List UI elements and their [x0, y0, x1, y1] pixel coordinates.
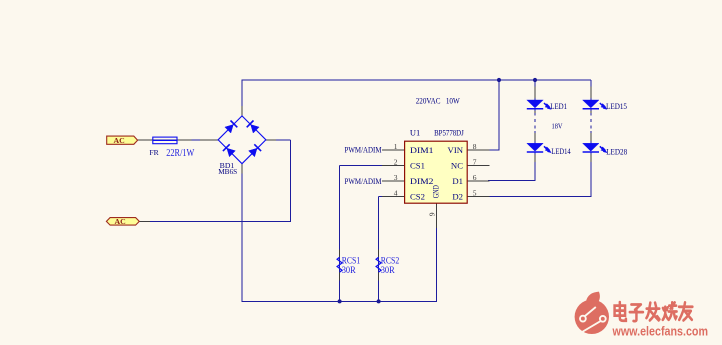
pin stub fuse right	[177, 139, 192, 141]
wire LED15 to LED28 dashed	[590, 113, 592, 132]
svg-text:LED14: LED14	[551, 147, 570, 156]
wire LED column 1 top drop	[534, 80, 536, 100]
junction dot LED col1 / top rail	[533, 78, 537, 82]
wire bridge right to corner	[266, 139, 291, 141]
wire D2 horizontal	[488, 196, 591, 198]
LED1	[527, 100, 551, 109]
pin 8 VIN stub	[467, 149, 489, 151]
pin stub AC2	[139, 220, 150, 222]
bridge BD1 diamond	[218, 116, 266, 164]
svg-text:CS2: CS2	[410, 191, 425, 201]
svg-text:RCS1: RCS1	[342, 255, 361, 265]
svg-text:GND: GND	[432, 185, 441, 198]
svg-text:1: 1	[394, 142, 398, 151]
pin 7 NC stub	[467, 165, 489, 167]
svg-text:18V: 18V	[552, 121, 563, 130]
wire LED1 to LED14 solid top	[534, 109, 536, 113]
bridge diode top-right	[247, 121, 259, 134]
wire VIN riser	[498, 80, 500, 150]
pin stub AC1 to fuse	[137, 139, 153, 141]
svg-text:PWM/ADIM: PWM/ADIM	[345, 145, 382, 155]
wire LED14 cathode drop	[534, 152, 536, 181]
svg-text:AC: AC	[115, 217, 127, 226]
watermark logo circle	[575, 292, 609, 334]
wire AC2 riser	[290, 140, 292, 222]
pin stub LED15 top	[590, 87, 592, 99]
LED15	[583, 100, 607, 109]
wire LED28 cathode drop	[590, 152, 592, 197]
wire LED15 to LED28 solid top	[590, 109, 592, 113]
svg-text:8: 8	[473, 142, 477, 151]
pin stub bridge right	[266, 139, 276, 141]
wire GND pin drop	[435, 225, 437, 302]
svg-text:NC: NC	[451, 160, 463, 170]
fuse FR	[153, 137, 177, 144]
svg-text:6: 6	[473, 173, 477, 182]
junction dot VIN / top rail	[497, 78, 501, 82]
pin 6 D1 stub	[467, 180, 489, 182]
pin stub LED1 top	[534, 87, 536, 99]
svg-text:DIM1: DIM1	[410, 145, 434, 155]
wire D1 horizontal	[488, 180, 536, 182]
pin 9 GND stub	[435, 203, 437, 228]
bridge diode top-left	[225, 121, 237, 134]
svg-text:9: 9	[427, 212, 436, 216]
pin stub LED28 top	[590, 133, 592, 141]
svg-text:30R: 30R	[342, 266, 357, 276]
svg-text:3: 3	[394, 173, 398, 182]
port AC2	[106, 217, 139, 226]
wire bridge top to top rail	[241, 80, 243, 116]
wire top rail	[241, 79, 590, 81]
pin stub RCS2 top	[378, 250, 380, 258]
svg-text:2: 2	[394, 157, 398, 166]
wire bottom rail	[242, 300, 437, 302]
pin stub RCS1 top	[339, 250, 341, 258]
svg-text:DIM2: DIM2	[410, 176, 434, 186]
pin stub LED28 bottom	[590, 155, 592, 163]
pin 3 DIM2 stub	[382, 180, 404, 182]
svg-text:D1: D1	[452, 176, 463, 186]
pin stub bridge bottom	[241, 164, 243, 173]
svg-text:RCS2: RCS2	[381, 255, 400, 265]
svg-text:220VAC 10W: 220VAC 10W	[416, 95, 460, 105]
wire LED1 to LED14 dashed	[534, 113, 536, 132]
svg-text:BP5778DJ: BP5778DJ	[434, 128, 464, 138]
pin 4 CS2 stub	[382, 196, 404, 198]
port AC1	[107, 136, 138, 145]
pin stub LED15 bottom	[590, 111, 592, 113]
junction dot RCS1 / bottom rail	[338, 299, 342, 303]
svg-text:PWM/ADIM: PWM/ADIM	[345, 176, 382, 186]
pin 1 DIM1 stub	[382, 149, 404, 151]
svg-text:AC: AC	[114, 136, 126, 145]
LED14	[527, 143, 551, 152]
pin stub RCS2 bottom	[378, 272, 380, 281]
pin stub bridge left	[200, 139, 218, 141]
wire CS2 riser to RCS2	[378, 197, 380, 302]
pin stub LED14 bottom	[534, 155, 536, 163]
svg-text:MB6S: MB6S	[218, 167, 237, 176]
svg-text:LED28: LED28	[606, 147, 627, 156]
svg-text:www.elecfans.com: www.elecfans.com	[612, 325, 708, 339]
wire AC2 horizontal	[139, 220, 291, 222]
svg-text:CS1: CS1	[410, 160, 425, 170]
LED28	[583, 143, 607, 152]
svg-text:D2: D2	[452, 191, 463, 201]
bridge diode bottom-right	[249, 144, 262, 156]
pin stub LED14 top	[534, 133, 536, 141]
resistor RCS1	[337, 257, 342, 272]
svg-text:LED1: LED1	[550, 102, 567, 111]
pin stub LED1 bottom	[534, 111, 536, 113]
wire AC1 to bridge left	[137, 139, 218, 141]
pin stub bridge top	[241, 106, 243, 115]
wire LED column 2 top drop	[590, 80, 592, 100]
svg-text:5: 5	[473, 188, 477, 197]
IC U1 BP5778DJ body	[405, 141, 468, 203]
pin stub RCS1 bottom	[339, 272, 341, 281]
resistor RCS2	[376, 257, 381, 272]
wire CS2 horizontal	[379, 196, 383, 198]
bridge diode bottom-left	[223, 144, 235, 156]
svg-text:30R: 30R	[381, 266, 396, 276]
svg-text:VIN: VIN	[448, 145, 464, 155]
junction dot RCS2 / bottom rail	[377, 299, 381, 303]
svg-text:U1: U1	[410, 128, 420, 138]
pin 2 CS1 stub	[382, 165, 404, 167]
svg-text:4: 4	[394, 188, 398, 197]
wire CS1 riser to RCS1	[339, 166, 341, 302]
wire CS1 horizontal	[340, 165, 383, 167]
svg-text:22R/1W: 22R/1W	[166, 148, 194, 159]
svg-text:LED15: LED15	[606, 102, 627, 111]
pin 5 D2 stub	[467, 196, 489, 198]
wire LED1 to LED14 solid bottom	[534, 131, 536, 143]
watermark chinese text 电子发烧友	[615, 302, 693, 321]
svg-text:FR: FR	[149, 149, 159, 157]
wire LED15 to LED28 solid bottom	[590, 131, 592, 143]
svg-text:7: 7	[473, 157, 477, 166]
wire VIN horizontal	[488, 149, 500, 151]
wire bridge bottom drop	[241, 164, 243, 302]
